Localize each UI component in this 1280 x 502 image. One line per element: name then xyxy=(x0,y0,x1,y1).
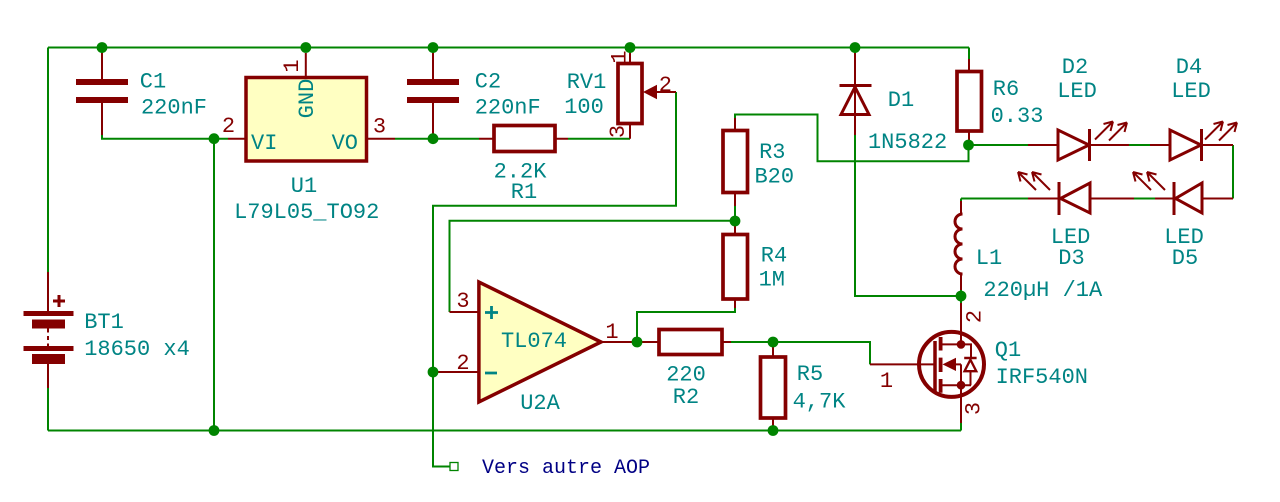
svg-text:R3: R3 xyxy=(759,140,785,165)
battery BT1 xyxy=(24,272,74,388)
label BT1 value xyxy=(84,310,190,362)
diode D1 xyxy=(840,53,872,135)
wire C2 bottom xyxy=(432,135,434,139)
svg-text:GND: GND xyxy=(295,79,320,119)
junction top bus U1 pin1 xyxy=(300,42,311,53)
svg-text:U2A: U2A xyxy=(520,391,560,416)
wire RV1 wiper to op-amp pin2 and label xyxy=(433,92,676,467)
junction VI node xyxy=(209,133,220,144)
label R1 value xyxy=(494,160,548,206)
junction bottom bus R5 xyxy=(768,425,779,436)
svg-text:BT1: BT1 xyxy=(84,310,124,335)
svg-text:3: 3 xyxy=(962,402,987,415)
wire Q1 drain xyxy=(960,296,962,303)
label D5 value xyxy=(1164,225,1204,271)
label R4 value xyxy=(759,244,788,293)
svg-text:2: 2 xyxy=(456,351,469,376)
svg-text:4,7K: 4,7K xyxy=(793,390,847,415)
label R5 value xyxy=(793,362,847,415)
svg-text:D3: D3 xyxy=(1058,246,1084,271)
wire C2 top xyxy=(432,48,434,54)
svg-text:220nF: 220nF xyxy=(141,96,207,121)
inductor L1 xyxy=(955,201,962,290)
junction top bus C2 xyxy=(428,42,439,53)
svg-text:1: 1 xyxy=(280,59,305,72)
junction R3 R4 node xyxy=(730,216,741,227)
svg-text:1: 1 xyxy=(605,320,618,345)
junction drain node xyxy=(956,291,967,302)
potentiometer RV1 xyxy=(618,53,676,139)
svg-text:L1: L1 xyxy=(976,246,1002,271)
wire op-amp pin3 to R3/R4 node xyxy=(450,221,736,312)
wire C1 bottom to VI xyxy=(102,135,228,139)
wire R3 bottom xyxy=(734,206,736,221)
junction R6 bottom node xyxy=(963,140,974,151)
wire VO to R1 xyxy=(395,138,479,140)
wire R3 top to R6 bottom node xyxy=(735,115,969,162)
junction op-amp pin2 node xyxy=(428,367,439,378)
capacitor C2 xyxy=(407,53,459,135)
svg-text:D5: D5 xyxy=(1172,246,1198,271)
label Q1 value xyxy=(995,338,1088,390)
svg-text:18650 x4: 18650 x4 xyxy=(84,337,190,362)
svg-text:C2: C2 xyxy=(475,70,501,95)
svg-text:LED: LED xyxy=(1057,79,1097,104)
svg-text:2: 2 xyxy=(222,114,235,139)
wire left battery vertical lower xyxy=(47,388,49,431)
svg-text:R4: R4 xyxy=(761,244,787,269)
svg-text:3: 3 xyxy=(456,289,469,314)
svg-text:D2: D2 xyxy=(1062,55,1088,80)
label R3 value xyxy=(754,140,794,190)
label C1 value xyxy=(140,70,207,121)
svg-text:L79L05_TO92: L79L05_TO92 xyxy=(234,200,379,225)
op-amp U2A xyxy=(434,282,659,402)
svg-text:VI: VI xyxy=(251,131,277,156)
wire R1 to RV1 xyxy=(568,138,630,140)
capacitor C1 xyxy=(76,53,128,135)
wire VI node vertical to bottom bus xyxy=(213,139,215,431)
svg-text:2: 2 xyxy=(659,73,672,98)
junction top bus RV1 xyxy=(625,42,636,53)
svg-text:VO: VO xyxy=(332,131,358,156)
wire Q1 source to bottom bus xyxy=(960,423,962,431)
label U1 value xyxy=(234,174,379,225)
svg-text:220: 220 xyxy=(666,363,706,388)
label D4 value xyxy=(1171,55,1211,104)
wire LED row2 xyxy=(961,198,1155,200)
wire R6 top xyxy=(968,48,970,60)
hierarchical label Vers autre AOP xyxy=(450,457,650,480)
svg-text:B20: B20 xyxy=(754,165,794,190)
wire L1 bottom xyxy=(960,290,962,296)
transistor Q1 xyxy=(870,303,984,423)
wire R2 right to R5 top and Q1 gate xyxy=(731,342,870,364)
label R2 value xyxy=(666,363,706,411)
svg-text:220nF: 220nF xyxy=(475,96,541,121)
svg-text:100: 100 xyxy=(564,95,604,120)
LED D5 xyxy=(1133,172,1233,215)
resistor R2 xyxy=(659,330,731,355)
wire LED row1 xyxy=(969,145,1234,199)
wire D1 bottom to drain node xyxy=(855,135,961,296)
wire RV1 top xyxy=(629,48,631,54)
svg-text:D4: D4 xyxy=(1176,55,1202,80)
wire L1 top xyxy=(960,199,962,202)
resistor R3 xyxy=(723,118,748,206)
svg-text:TL074: TL074 xyxy=(501,329,567,354)
svg-text:0.33: 0.33 xyxy=(991,104,1044,129)
svg-text:R5: R5 xyxy=(797,362,823,387)
svg-text:2: 2 xyxy=(963,310,988,323)
wire C1 top xyxy=(101,48,103,54)
svg-text:RV1: RV1 xyxy=(567,70,607,95)
junction bottom bus VI column xyxy=(209,425,220,436)
label RV1 value xyxy=(564,70,606,120)
svg-text:1: 1 xyxy=(880,369,893,394)
resistor R4 xyxy=(723,221,748,308)
svg-text:IRF540N: IRF540N xyxy=(996,365,1088,390)
svg-text:3: 3 xyxy=(373,115,386,140)
resistor R1 xyxy=(479,126,568,152)
svg-text:220µH /1A: 220µH /1A xyxy=(983,278,1103,303)
LED D2 xyxy=(1028,122,1129,162)
label C2 value xyxy=(475,70,541,121)
junction top bus D1 xyxy=(850,42,861,53)
junction top bus C1 xyxy=(97,42,108,53)
wire left battery vertical upper xyxy=(47,48,49,273)
svg-text:Q1: Q1 xyxy=(995,338,1021,363)
svg-text:C1: C1 xyxy=(140,70,166,95)
svg-text:3: 3 xyxy=(606,125,631,138)
resistor R5 xyxy=(761,342,786,431)
svg-text:R1: R1 xyxy=(511,180,537,205)
label D3 value xyxy=(1051,225,1091,271)
svg-text:U1: U1 xyxy=(291,174,317,199)
svg-text:LED: LED xyxy=(1171,79,1211,104)
LED D3 xyxy=(1018,172,1134,215)
svg-text:D1: D1 xyxy=(888,88,914,113)
LED D4 xyxy=(1150,122,1237,162)
regulator U1 xyxy=(228,53,395,161)
svg-text:R2: R2 xyxy=(673,385,699,410)
svg-text:R6: R6 xyxy=(993,77,1019,102)
svg-text:1M: 1M xyxy=(759,268,785,293)
wire bottom bus xyxy=(48,430,961,432)
wire R4 bottom feedback to output node xyxy=(637,308,735,342)
junction R2 R5 node xyxy=(768,337,779,348)
label D1 value xyxy=(868,88,947,155)
wire top bus xyxy=(48,47,969,49)
junction op-amp output node xyxy=(632,337,643,348)
svg-text:1N5822: 1N5822 xyxy=(868,130,947,155)
label L1 value xyxy=(976,246,1103,303)
svg-text:Vers autre AOP: Vers autre AOP xyxy=(482,457,650,480)
junction VO node xyxy=(428,133,439,144)
wire D1 top xyxy=(854,48,856,54)
label D2 value xyxy=(1057,55,1097,104)
label R6 value xyxy=(991,77,1044,129)
resistor R6 xyxy=(957,59,982,145)
